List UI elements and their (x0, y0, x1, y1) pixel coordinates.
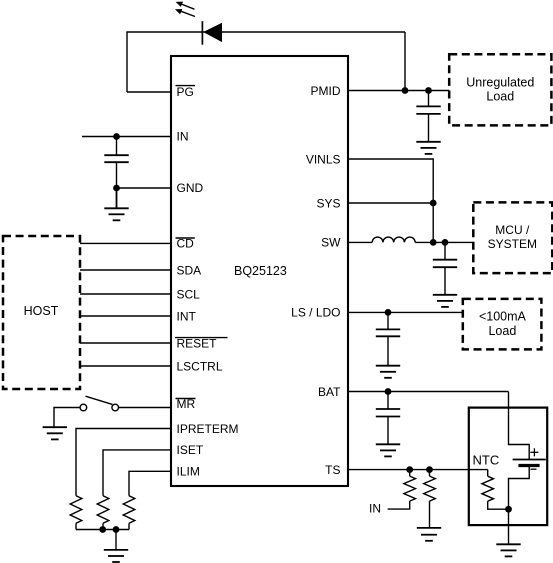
node: bus-ground junction (113, 526, 120, 533)
svg-text:IPRETERM: IPRETERM (177, 422, 239, 436)
resistor R1 (IPRETERM) (70, 496, 82, 524)
wire: SW to inductor (348, 241, 372, 243)
LED light arrow 1 (176, 2, 195, 10)
node: TS-R5 junction (426, 466, 433, 473)
wire: SYS (348, 202, 433, 204)
svg-text:ILIM: ILIM (177, 465, 200, 479)
<100mA Load box (463, 299, 542, 350)
node: SYS-VINLS junction (430, 200, 437, 207)
resistor R5 (TS pulldown) (424, 470, 436, 502)
capacitor C5 (BAT) (376, 392, 400, 445)
svg-text:SCL: SCL (177, 287, 201, 301)
svg-text:<100mA: <100mA (479, 310, 527, 324)
overline CD (176, 237, 195, 239)
wire: LSCTRL (80, 365, 171, 367)
capacitor C2 (PMID) (416, 91, 440, 142)
Unregulated Load box (449, 54, 551, 125)
wire: pack node to ground (508, 509, 510, 544)
svg-text:LSCTRL: LSCTRL (177, 359, 223, 373)
ground (C5) (376, 444, 400, 456)
svg-text:SYSTEM: SYSTEM (488, 237, 537, 251)
svg-text:PG: PG (177, 85, 194, 99)
node: PMID-C2 junction (425, 87, 432, 94)
inductor L1 (372, 237, 415, 242)
node: SW-C3 junction (442, 239, 449, 246)
wire: NTC to pack node (488, 501, 509, 509)
svg-text:Load: Load (488, 324, 516, 338)
wire: switch to ground (54, 408, 80, 428)
node: BAT-C5 junction (385, 388, 392, 395)
node: bus-R2 junction (99, 526, 106, 533)
wire: vertical drop to PMID node (404, 32, 406, 91)
wire: SCL (80, 293, 171, 295)
wire: top LED net from left loop to PMID drop (127, 32, 405, 92)
wire: R5 to ground (429, 501, 431, 528)
ground (C3) (433, 295, 457, 307)
resistor R2 (ISET) (97, 496, 109, 524)
svg-text:HOST: HOST (24, 304, 59, 318)
wire: TS (348, 469, 488, 471)
LED D1 cathode bar (201, 21, 203, 45)
overline MR (176, 398, 196, 400)
wire: GND stub (117, 187, 172, 189)
HOST box (3, 236, 80, 389)
svg-text:Load: Load (486, 89, 514, 103)
svg-text:PMID: PMID (311, 84, 341, 98)
svg-text:MR: MR (177, 397, 196, 411)
wire: CD (80, 242, 171, 244)
node: PMID-LED junction (402, 87, 409, 94)
svg-text:SW: SW (321, 236, 341, 250)
wire: IPRETERM (76, 429, 171, 496)
node: pack negative junction (505, 506, 512, 513)
wire: INT (80, 315, 171, 317)
ground (C1) (104, 188, 128, 220)
switch S1 (MR pushbutton) (80, 396, 118, 411)
battery BT1 (513, 460, 546, 466)
wire: LS/LDO (348, 311, 463, 313)
overline RESET (175, 337, 228, 339)
wire: R3 bottom lead (128, 523, 130, 529)
wire: battery - to pack node (509, 466, 530, 510)
wire: BAT into pack to battery + (509, 392, 530, 460)
svg-text:BAT: BAT (318, 385, 341, 399)
svg-text:Unregulated: Unregulated (466, 75, 534, 89)
wire: bus to ground (115, 530, 117, 550)
wire: PG stub (127, 91, 171, 93)
ground (R5) (417, 528, 441, 541)
node: SW-VINLS junction (430, 239, 437, 246)
wire: MR to switch (119, 407, 172, 409)
wire: RESET (80, 342, 171, 344)
wire: R2 bottom lead (102, 523, 104, 529)
wire: R4 to IN label (388, 501, 410, 509)
ground (battery pack) (496, 544, 520, 556)
svg-text:BQ25123: BQ25123 (234, 264, 287, 278)
wire: resistor common bus (76, 529, 129, 531)
node: TS-R4 junction (406, 466, 413, 473)
node: GND-C1 junction (113, 185, 120, 192)
svg-text:IN: IN (177, 130, 189, 144)
svg-text:VINLS: VINLS (306, 152, 341, 166)
ground (resistor bus) (104, 550, 128, 562)
svg-text:GND: GND (177, 181, 204, 195)
svg-text:CD: CD (177, 237, 195, 251)
wire: SDA (80, 269, 171, 271)
wire: ISET (103, 450, 171, 496)
wire: ILIM (129, 471, 171, 496)
svg-text:TS: TS (325, 463, 340, 477)
battery + mark (530, 448, 538, 456)
battery pack box (469, 408, 547, 525)
resistor R3 (ILIM) (123, 496, 135, 524)
MCU / SYSTEM box (473, 202, 552, 273)
ground (C4) (376, 366, 400, 378)
svg-text:LS / LDO: LS / LDO (291, 306, 340, 320)
svg-text:MCU /: MCU / (495, 223, 530, 237)
svg-text:SDA: SDA (177, 263, 202, 277)
node: IN-C1 junction (113, 133, 120, 140)
wire: BAT (348, 391, 509, 393)
svg-text:IN: IN (369, 502, 381, 516)
overline PG (176, 85, 196, 87)
wire: inductor to MCU box (415, 241, 473, 243)
node: LS/LDO-C4 junction (385, 309, 392, 316)
svg-text:SYS: SYS (316, 196, 340, 210)
capacitor C1 (IN bypass) (104, 137, 128, 189)
wire: R1 bottom lead (75, 523, 77, 529)
ground (switch) (43, 427, 67, 439)
svg-text:ISET: ISET (177, 443, 204, 457)
svg-text:RESET: RESET (177, 336, 218, 350)
LED D1 triangle (203, 23, 222, 42)
capacitor C4 (LS/LDO) (376, 312, 400, 365)
LED light arrow 2 (175, 9, 195, 17)
thermistor NTC (482, 470, 494, 502)
ground (C2) (416, 142, 440, 154)
svg-text:NTC: NTC (473, 453, 500, 468)
wire: VINLS (348, 159, 433, 242)
wire: IN input (82, 136, 171, 138)
svg-text:INT: INT (177, 309, 197, 323)
IC U1 BQ25123 body (171, 56, 348, 486)
resistor R4 (TS pullup) (404, 470, 416, 502)
wire: PMID (348, 90, 449, 92)
capacitor C3 (SYS) (433, 242, 457, 294)
battery - mark (531, 468, 537, 470)
